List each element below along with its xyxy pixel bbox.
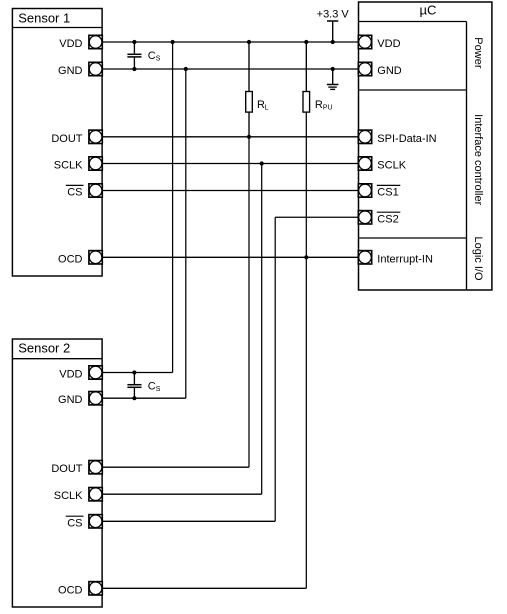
junction dot R_L bottom on SPI data net bbox=[247, 135, 251, 139]
pin VDD of µC bbox=[358, 35, 371, 48]
wire Sensor2 OCD horizontal bbox=[102, 587, 306, 589]
svg-text:PU: PU bbox=[323, 105, 333, 112]
svg-text:S: S bbox=[156, 55, 161, 62]
pin SCLK of µC bbox=[358, 157, 371, 170]
pin DOUT of Sensor 1 bbox=[89, 130, 102, 143]
label R_L bbox=[257, 99, 269, 112]
wire Sensor2 GND horizontal bbox=[102, 397, 186, 399]
pin CS1 of µC bbox=[358, 184, 371, 197]
pin SCLK of Sensor 2 bbox=[89, 488, 102, 501]
pin CS of Sensor 1 bbox=[89, 184, 102, 197]
svg-text:+3.3 V: +3.3 V bbox=[317, 9, 350, 21]
pin OCD of Sensor 2 bbox=[89, 582, 102, 595]
wire Sensor2 VDD horizontal bbox=[102, 372, 173, 374]
junction dot R_PU top on VDD net bbox=[304, 40, 308, 44]
wire CS2 net horizontal (to µC CS2) bbox=[275, 216, 358, 218]
wire Sensor2 VDD vertical riser bbox=[172, 42, 174, 373]
wire Sensor2 GND vertical riser bbox=[185, 69, 187, 398]
svg-text:SCLK: SCLK bbox=[377, 160, 406, 172]
capacitor C_S (Sensor 1 decoupling) bbox=[127, 42, 141, 69]
svg-text:GND: GND bbox=[58, 394, 83, 406]
wire OCD net horizontal (Sensor1 OCD to µC Interrupt-IN) bbox=[102, 256, 358, 258]
wire Sensor2 SCLK horizontal bbox=[102, 493, 262, 495]
svg-text:CS2: CS2 bbox=[377, 213, 398, 225]
wire Sensor2 DOUT horizontal bbox=[102, 466, 249, 468]
pin label CS with overline (Sensor 2) bbox=[66, 516, 84, 529]
svg-text:Power: Power bbox=[472, 37, 484, 69]
ground symbol bbox=[327, 69, 339, 89]
pin Interrupt-IN of µC bbox=[358, 251, 371, 264]
junction dot C_S top on VDD net bbox=[132, 40, 136, 44]
pin GND of µC bbox=[358, 62, 371, 75]
wire GND net horizontal (Sensor1 GND to µC GND) bbox=[102, 68, 358, 70]
svg-text:R: R bbox=[315, 99, 323, 111]
svg-text:C: C bbox=[148, 50, 156, 62]
junction dot power stem on VDD net bbox=[331, 40, 335, 44]
capacitor C_S (Sensor 2 decoupling) bbox=[127, 373, 141, 399]
svg-text:CS: CS bbox=[67, 517, 82, 529]
svg-text:OCD: OCD bbox=[58, 253, 83, 265]
label R_PU bbox=[315, 99, 333, 112]
pin GND of Sensor 1 bbox=[89, 62, 102, 75]
junction dot C_S2 top on Sensor2 VDD wire bbox=[132, 370, 136, 374]
pin SCLK of Sensor 1 bbox=[89, 157, 102, 170]
pin label CS2 with overline (µC) bbox=[377, 212, 401, 225]
wire Sensor2 DOUT vertical riser bbox=[248, 137, 250, 467]
junction dot R_PU bottom on OCD net bbox=[304, 255, 308, 259]
svg-text:C: C bbox=[148, 380, 156, 392]
svg-text:DOUT: DOUT bbox=[51, 463, 82, 475]
pin label CS1 with overline (µC) bbox=[377, 185, 401, 198]
pin OCD of Sensor 1 bbox=[89, 251, 102, 264]
svg-text:Sensor 2: Sensor 2 bbox=[18, 340, 70, 355]
svg-text:Interface controller: Interface controller bbox=[472, 114, 484, 205]
wire Sensor2 SCLK vertical riser bbox=[261, 164, 263, 495]
svg-text:Sensor 1: Sensor 1 bbox=[18, 10, 70, 25]
svg-text:VDD: VDD bbox=[59, 369, 82, 381]
svg-text:VDD: VDD bbox=[59, 38, 82, 50]
junction dot Sensor2 GND riser on GND net bbox=[184, 67, 188, 71]
junction dot R_L top on VDD net bbox=[247, 40, 251, 44]
microcontroller U3 box (µC) bbox=[359, 2, 492, 290]
svg-text:OCD: OCD bbox=[58, 584, 83, 596]
label C_S (Sensor 1 capacitor) bbox=[148, 50, 161, 63]
svg-text:Logic I/O: Logic I/O bbox=[472, 236, 484, 280]
svg-text:µC: µC bbox=[420, 3, 437, 18]
junction dot ground stem on GND net bbox=[331, 67, 335, 71]
wire Sensor2 CS vertical riser bbox=[274, 217, 276, 521]
wire Sensor2 OCD vertical riser bbox=[305, 257, 307, 588]
pin VDD of Sensor 1 bbox=[89, 35, 102, 48]
pin SPI-Data-IN of µC bbox=[358, 130, 371, 143]
svg-text:GND: GND bbox=[377, 65, 402, 77]
svg-text:GND: GND bbox=[58, 65, 83, 77]
pin CS of Sensor 2 bbox=[89, 515, 102, 528]
junction dot C_S2 bottom on Sensor2 GND wire bbox=[132, 396, 136, 400]
wire VDD net horizontal (Sensor1 VDD to µC VDD) bbox=[102, 41, 358, 43]
junction dot C_S bottom on GND net bbox=[132, 67, 136, 71]
label C_S (Sensor 2 capacitor) bbox=[148, 380, 161, 393]
wire SCLK net horizontal (Sensor1 SCLK to µC SCLK) bbox=[102, 163, 358, 165]
svg-text:SCLK: SCLK bbox=[54, 160, 83, 172]
svg-text:Interrupt-IN: Interrupt-IN bbox=[377, 253, 433, 265]
svg-text:CS1: CS1 bbox=[377, 187, 398, 199]
resistor R_PU bbox=[303, 42, 310, 257]
pin DOUT of Sensor 2 bbox=[89, 461, 102, 474]
pin CS2 of µC bbox=[358, 211, 371, 224]
pin GND of Sensor 2 bbox=[89, 392, 102, 405]
resistor R_L bbox=[246, 42, 253, 137]
wire Sensor2 CS horizontal bbox=[102, 520, 275, 522]
sensor U1 box (Sensor 1) bbox=[12, 9, 102, 277]
svg-text:L: L bbox=[265, 105, 269, 112]
junction dot Sensor2 VDD riser on VDD net bbox=[171, 40, 175, 44]
junction dot Sensor2 SCLK riser on SCLK net bbox=[260, 161, 264, 165]
wire SPI data net horizontal (Sensor1 DOUT to µC SPI-Data-IN) bbox=[102, 136, 358, 138]
pin VDD of Sensor 2 bbox=[89, 366, 102, 379]
svg-text:SCLK: SCLK bbox=[54, 490, 83, 502]
pin label CS with overline (Sensor 1) bbox=[66, 185, 84, 198]
sensor U2 box (Sensor 2) bbox=[12, 339, 102, 607]
svg-text:CS: CS bbox=[67, 187, 82, 199]
svg-text:DOUT: DOUT bbox=[51, 133, 82, 145]
svg-text:VDD: VDD bbox=[377, 38, 400, 50]
svg-text:SPI-Data-IN: SPI-Data-IN bbox=[377, 133, 436, 145]
svg-text:S: S bbox=[156, 386, 161, 393]
power symbol +3.3 V (bar and stem) bbox=[327, 21, 338, 42]
wire CS1 net horizontal (Sensor1 CS to µC CS1) bbox=[102, 190, 358, 192]
